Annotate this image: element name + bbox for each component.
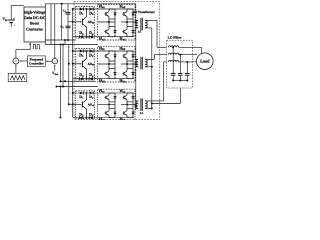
label Hc4: [120, 117, 126, 122]
wire neutral rail collecting secondary bottoms: [148, 27, 152, 29]
transistor Hb2 with diode: [127, 50, 133, 52]
transistor Hb3 with diode: [109, 68, 115, 70]
label D4: [89, 112, 94, 117]
svg-text:1:1: 1:1: [138, 31, 142, 34]
diode D4 row a: [89, 35, 93, 38]
comparator circle (PWM): [13, 58, 19, 64]
diode D1 row a: [80, 7, 84, 10]
wire box right edge down to bus B: [44, 42, 46, 45]
transistor Hc4 with diode: [127, 108, 133, 110]
summing circle (error): [52, 59, 57, 64]
switched diode cell box row b: [76, 49, 95, 80]
label D1: [79, 11, 84, 17]
wire rail x=65 link bus A1 to bus B1: [64, 40, 66, 45]
wire rail x=51 top bus to bus B1: [50, 4, 52, 45]
label D4: [89, 30, 94, 36]
label D3: [79, 72, 84, 78]
label Hb1: [99, 46, 106, 52]
wire phase B: T2 secondary top to filter line 2: [148, 58, 155, 60]
svg-text:×: ×: [15, 58, 17, 63]
wire comparator to gate arrow: [16, 49, 30, 51]
H-bridge box row b: [98, 47, 135, 82]
transformer T2: [136, 58, 138, 60]
diode D3 row b: [80, 77, 84, 80]
svg-text:1:1 Transformer: 1:1 Transformer: [133, 10, 155, 14]
wire bridge legs row b: [109, 61, 133, 69]
diode D4 row c: [89, 116, 93, 119]
transistor Hc1 with diode: [109, 92, 115, 94]
label Hc2: [120, 88, 126, 93]
transformer T1: [136, 19, 138, 21]
wire capacitor common rail: [173, 80, 187, 82]
transistor ASa1 auxiliary switch row a: [82, 8, 87, 38]
transistor Ha2 with diode: [127, 8, 133, 10]
battery Vin: [10, 6, 12, 21]
wire bridge output mid wires row a: [98, 21, 136, 23]
inductor filter L2: [168, 53, 178, 54]
arrow carrier into comparator: [15, 65, 17, 73]
label D1: [79, 53, 84, 59]
label D1: [79, 94, 84, 99]
capacitor filter C2: [179, 55, 181, 74]
svg-text:1:1: 1:1: [140, 112, 144, 115]
label Hb2: [119, 46, 126, 52]
svg-text:ASa1: ASa1: [88, 20, 96, 25]
wire rail x=60.5 bus B1 to bus A2: [60, 45, 62, 82]
label Ha1: [99, 4, 105, 10]
label ASc1: [88, 103, 95, 107]
wire gate arrow into ASa1: [73, 21, 82, 22]
label D2: [89, 11, 94, 17]
inductor filter L1: [168, 46, 178, 47]
diode D1 row c: [80, 92, 84, 95]
pulse waveform glyph: [32, 45, 40, 49]
diode D1 row b: [80, 49, 84, 52]
wire DC bus B1 (y=44.5): [45, 44, 97, 46]
svg-text:×: ×: [54, 59, 56, 63]
svg-text:Load: Load: [200, 59, 210, 64]
wire row a: top rail: [73, 8, 134, 10]
wire bridge legs row c: [109, 102, 133, 109]
transistor Ha1 with diode: [109, 8, 115, 10]
inductor filter L3: [168, 60, 178, 61]
High-Voltage Gain DC-DC Boost Converter block: [24, 7, 45, 42]
wire filter line 2: [179, 54, 197, 56]
label Hb3: [99, 78, 106, 84]
label Hc1: [99, 88, 105, 93]
load circle: [197, 53, 214, 70]
wire filter line 1: [179, 46, 202, 48]
label ASa1: [88, 20, 96, 25]
label ASb1: [88, 62, 96, 67]
svg-text:Boost: Boost: [30, 22, 40, 26]
capacitor filter C3: [186, 62, 188, 74]
wire filter line 3: [179, 61, 197, 63]
arrow controller output into comparator: [20, 60, 27, 62]
wire top DC bus: [45, 3, 136, 5]
label Ha2: [119, 4, 125, 10]
LC filter dashed box: [167, 40, 193, 88]
node capacitor midpoint to gate wire: [68, 21, 73, 23]
wire row3 gate stub: [68, 103, 70, 105]
arrow error into controller: [46, 60, 52, 62]
outer dashed boundary of multilevel inverter section: [74, 2, 160, 120]
svg-text:ASb1: ASb1: [88, 62, 96, 67]
transistor Ha4 with diode: [127, 26, 133, 28]
diode D2 row a: [90, 7, 94, 10]
wire bridge legs row a: [109, 19, 133, 27]
label D2: [89, 53, 94, 59]
wire voltage-sense tap to comparator: [54, 4, 56, 58]
wire battery to boost box: [11, 5, 24, 7]
transistor Ha3 with diode: [109, 26, 115, 28]
wire row b: top rail: [73, 50, 134, 52]
label D3: [79, 112, 84, 117]
label D3: [79, 30, 84, 36]
transistor Hb1 with diode: [109, 50, 115, 52]
H-bridge box row a: [98, 5, 135, 40]
svg-text:High-Voltage: High-Voltage: [24, 11, 46, 15]
wire row c: top rail: [73, 92, 134, 94]
wire DC bus B2 (y=86.5): [57, 86, 98, 88]
carrier wave box: [8, 73, 27, 81]
svg-text:Controller: Controller: [29, 62, 44, 66]
diode D3 row c: [80, 116, 84, 119]
wire rail x=68.8 feeding row2 and row3 gates: [68, 45, 70, 105]
wire rail x=61.7: [61, 4, 63, 40]
capacitor C1: [67, 4, 69, 13]
H-bridge box row c: [98, 89, 135, 120]
sawtooth carrier wave: [10, 76, 25, 80]
wire phase C: T3 secondary top to filter line 3: [148, 100, 164, 102]
wire phase A: T1 secondary top to filter line 1: [148, 19, 157, 21]
svg-text:LC-Filter: LC-Filter: [168, 36, 182, 40]
wire row a: bottom rail: [73, 36, 134, 38]
transformer T3: [136, 100, 138, 102]
label Ha4: [119, 36, 125, 42]
label Hc3: [99, 117, 105, 122]
diode D2 row b: [90, 49, 94, 52]
label Hb4: [119, 78, 126, 84]
switched diode cell box row c: [76, 91, 95, 119]
wire gate arrow into ASc1: [73, 104, 82, 105]
wire bridge output mid wires row b: [98, 63, 136, 65]
label D2: [89, 94, 94, 99]
wire rail x=63 bus B1 to bus B2: [62, 45, 64, 87]
wire DC bus A2 (y=81.3): [61, 80, 97, 82]
svg-text:Converter: Converter: [26, 27, 43, 31]
svg-text:Gain DC-DC: Gain DC-DC: [24, 16, 46, 20]
diode D2 row c: [90, 92, 94, 95]
transistor ASb1 auxiliary switch row b: [82, 50, 87, 80]
switched diode cell box row a: [76, 7, 95, 38]
wire rail x=135.8 (top bus down to transformers): [135, 4, 137, 102]
wire bridge output mid wires row c: [98, 104, 136, 106]
wire vertical rail x=72.7: [72, 9, 74, 118]
arrow Vref into summer: [54, 65, 56, 71]
label Ha3: [99, 36, 105, 42]
capacitor C2: [67, 22, 69, 26]
svg-text:ASc1: ASc1: [88, 103, 95, 107]
diode D3 row a: [80, 35, 84, 38]
wire rail x=60.5 bus B2 to row3 bottom: [60, 87, 62, 118]
wire gate arrow into ASb1: [73, 63, 82, 64]
wire row b: bottom rail: [73, 78, 134, 80]
diode D4 row b: [89, 77, 93, 80]
Proposed Controller box: [27, 56, 45, 66]
wire neutral to filter capacitor rail: [152, 103, 181, 105]
transistor Hc2 with diode: [127, 92, 133, 94]
wire row c: bottom rail: [73, 117, 134, 119]
wire PWM gate drive into boost box: [29, 43, 31, 50]
transistor Hc3 with diode: [109, 108, 115, 110]
transistor Hb4 with diode: [127, 68, 133, 70]
transistor ASc1 auxiliary switch row c: [82, 92, 87, 118]
wire DC bus A1 (y=40): [45, 39, 75, 41]
capacitor filter C1: [172, 47, 174, 73]
label D4: [89, 72, 94, 78]
